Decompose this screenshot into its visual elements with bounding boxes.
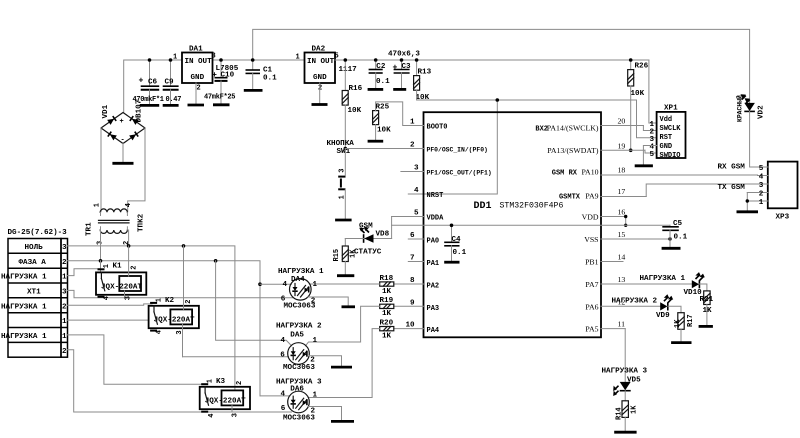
bridge rectifier VD1	[101, 113, 145, 145]
ground below R21	[699, 325, 713, 328]
svg-text:R15: R15	[333, 249, 341, 262]
svg-text:JQX-220AT: JQX-220AT	[205, 398, 246, 406]
svg-text:PA3: PA3	[427, 305, 440, 313]
svg-text:VD5: VD5	[627, 377, 641, 385]
terminal block XT1	[1, 239, 68, 358]
transformer TR1	[94, 203, 134, 245]
svg-text:DA5: DA5	[290, 331, 304, 339]
regulator DA2	[296, 46, 339, 93]
wire XT1 row3 to K1 pin1	[68, 269, 101, 276]
svg-text:+: +	[393, 64, 398, 73]
pin 3 stub	[401, 165, 492, 177]
XP1 pin numbers	[650, 121, 655, 159]
svg-text:0.1: 0.1	[263, 74, 277, 82]
ground below XP3	[737, 210, 759, 213]
wire NRST net R13 to chip pin4 and XP1 pin3	[408, 90, 656, 194]
svg-text:ФАЗА А: ФАЗА А	[19, 259, 47, 267]
svg-text:НАГРУЗКА 1: НАГРУЗКА 1	[1, 274, 47, 282]
resistor R14	[616, 401, 639, 432]
wire DA6 pin2 to ground	[308, 407, 341, 422]
pin 12 stub PA6	[585, 297, 660, 311]
svg-text:3: 3	[339, 169, 347, 173]
svg-text:2: 2	[410, 142, 415, 150]
resistor R26	[628, 60, 649, 98]
svg-text:PA4: PA4	[427, 327, 440, 335]
svg-text:PB1: PB1	[585, 258, 599, 267]
wire 5V rail from bridge to DA1 and DA2	[124, 60, 305, 113]
svg-text:11: 11	[618, 320, 626, 329]
wire NOL net row1	[68, 246, 235, 391]
pin 7 stub PA1	[408, 255, 439, 269]
svg-text:VD8: VD8	[376, 230, 390, 238]
svg-text:1117: 1117	[339, 66, 358, 74]
DA5 pin labels	[280, 337, 317, 365]
svg-text:C9: C9	[165, 79, 175, 87]
junction C1 on rail	[251, 58, 255, 62]
svg-text:4: 4	[208, 413, 216, 417]
svg-text:DA4: DA4	[291, 276, 305, 284]
svg-text:PF0/OSC_IN/(PF0): PF0/OSC_IN/(PF0)	[427, 146, 488, 153]
wire XT1 row7 to K3 pin1	[68, 335, 205, 384]
svg-text:1: 1	[62, 274, 67, 282]
svg-text:SWDIO: SWDIO	[660, 152, 681, 160]
svg-text:3: 3	[232, 413, 240, 417]
svg-text:XP1: XP1	[664, 105, 678, 113]
junction NRST branch	[496, 98, 500, 102]
capacitor C9	[163, 60, 179, 105]
pin 8 stub PA2	[394, 277, 439, 291]
LED VD10	[684, 272, 705, 297]
LED VD9	[656, 294, 673, 320]
svg-text:PA9: PA9	[585, 191, 598, 200]
DA6 pin labels	[281, 391, 318, 416]
wire R19 to DA5 pin1	[305, 306, 379, 346]
ground below C10	[213, 103, 230, 106]
capacitor C4	[444, 225, 466, 261]
wire VD2 to XP3 pin5	[750, 111, 758, 167]
svg-text:+: +	[120, 118, 124, 126]
junction C2 on rail	[374, 58, 378, 62]
svg-text:XP3: XP3	[776, 214, 790, 222]
ground below VD1	[112, 144, 133, 164]
svg-text:НАГРУЗКА 2: НАГРУЗКА 2	[612, 297, 658, 305]
junction XP3 pin1	[746, 199, 749, 202]
junction NOL K2 pin2	[182, 244, 186, 248]
wire bridge right corner to transformer pin4	[128, 128, 145, 212]
svg-text:DD1: DD1	[474, 201, 492, 212]
capacitor C1	[246, 60, 278, 90]
junction FAZA transformer pin3 and K1 pin1	[99, 259, 103, 263]
svg-text:SWCLK: SWCLK	[660, 125, 682, 133]
svg-text:BOOT0: BOOT0	[427, 123, 448, 131]
svg-text:DG-25(7.62)-3: DG-25(7.62)-3	[8, 229, 68, 237]
svg-text:2: 2	[131, 266, 139, 270]
svg-text:1: 1	[62, 318, 67, 326]
svg-text:КРАСНЫЙ: КРАСНЫЙ	[736, 95, 744, 122]
ground DA4 pin2	[342, 305, 356, 308]
ground below SW1	[335, 219, 352, 222]
svg-text:PA7: PA7	[585, 280, 598, 289]
svg-text:2: 2	[236, 381, 244, 385]
junction C10 on rail	[219, 58, 223, 62]
connector XP3	[768, 162, 798, 222]
svg-text:STM32F030F4P6: STM32F030F4P6	[500, 202, 564, 211]
svg-text:2: 2	[62, 348, 67, 356]
pin 14 stub PB1	[585, 253, 625, 267]
svg-text:3: 3	[414, 165, 419, 173]
svg-text:VDD: VDD	[582, 213, 599, 222]
svg-text:0.47: 0.47	[166, 96, 182, 104]
svg-text:R16: R16	[349, 85, 363, 93]
svg-text:13: 13	[618, 275, 626, 284]
svg-text:2: 2	[185, 300, 193, 304]
svg-text:R18: R18	[380, 275, 394, 283]
svg-text:C10: C10	[221, 72, 235, 80]
svg-text:RST: RST	[660, 134, 673, 142]
wire FAZA to DA4 pin4	[260, 283, 291, 285]
svg-text:1: 1	[339, 195, 347, 199]
resistor R13	[414, 60, 432, 102]
svg-text:OUT: OUT	[198, 58, 212, 66]
svg-text:1: 1	[313, 392, 318, 400]
svg-text:НАГРУЗКА 1: НАГРУЗКА 1	[1, 333, 47, 341]
pin 17 stub TX	[559, 184, 758, 201]
switch SW1	[337, 147, 351, 220]
wire DA5 pin2 to ground	[309, 356, 342, 367]
svg-text:K1: K1	[113, 262, 123, 270]
svg-text:GND: GND	[660, 143, 673, 151]
wire VD9 to R17	[668, 306, 681, 312]
ground DA5 pin2	[331, 366, 352, 369]
junction R26 on rail	[629, 58, 633, 62]
pin 1 stub	[408, 119, 447, 132]
svg-text:НОЛЬ: НОЛЬ	[25, 244, 44, 252]
junction C6 on rail	[148, 58, 152, 62]
resistor R19	[380, 297, 394, 318]
junction C3 on rail	[400, 58, 404, 62]
wire XT1 row5 to K2 pin1	[68, 304, 153, 305]
svg-text:3: 3	[759, 182, 764, 190]
svg-text:PA0: PA0	[427, 238, 440, 246]
svg-text:2: 2	[759, 191, 764, 199]
svg-text:10K: 10K	[631, 90, 645, 98]
capacitor C5	[662, 220, 687, 248]
svg-text:JQX-220AT: JQX-220AT	[154, 317, 195, 325]
svg-text:1: 1	[207, 379, 215, 383]
junction pin16 on VDB rail	[624, 224, 627, 227]
svg-text:17: 17	[618, 187, 626, 196]
wire R25 bottom to ground	[375, 125, 377, 141]
value label C6 C9	[133, 96, 182, 104]
ground below R17	[671, 341, 691, 344]
svg-text:20: 20	[618, 117, 626, 126]
svg-text:R13: R13	[418, 69, 432, 77]
svg-text:PA6: PA6	[585, 302, 598, 311]
capacitor C2	[369, 60, 391, 89]
svg-text:5: 5	[759, 165, 764, 173]
svg-text:TX GSM: TX GSM	[718, 184, 746, 192]
svg-text:1: 1	[103, 264, 111, 268]
junction C4 on VDB rail	[450, 224, 454, 228]
svg-text:TR1: TR1	[86, 222, 94, 236]
pin 6 stub PA0	[408, 232, 439, 246]
svg-text:GSMTX: GSMTX	[559, 193, 581, 201]
wire R26 to PA13 net	[630, 86, 632, 150]
svg-text:0.1: 0.1	[376, 78, 390, 86]
resistor R21	[700, 291, 714, 326]
ground below C9	[163, 104, 179, 107]
wire 3.3V rail from DA2 to XP1	[335, 60, 657, 123]
relay K2	[149, 246, 199, 357]
ground below R15	[337, 274, 354, 277]
wire transformer pin3 to FAZA line	[100, 230, 102, 261]
svg-text:4: 4	[281, 391, 286, 399]
svg-text:R26: R26	[635, 63, 649, 71]
svg-text:4: 4	[283, 281, 288, 289]
ground below C1	[244, 89, 263, 92]
svg-text:RX GSM: RX GSM	[718, 164, 746, 172]
capacitor C10	[212, 60, 235, 104]
diode VD2	[741, 94, 755, 111]
junction C9 on rail	[169, 58, 173, 62]
svg-text:C1: C1	[263, 67, 273, 75]
svg-text:3: 3	[125, 296, 133, 300]
ground below DA2 pin2	[312, 83, 328, 105]
svg-text:K3: K3	[216, 378, 226, 386]
ground below C3	[393, 88, 406, 91]
relay K3	[200, 379, 250, 418]
svg-text:4: 4	[281, 337, 286, 345]
svg-text:ТПК2: ТПК2	[138, 213, 146, 232]
XP3 pin numbers and stubs	[747, 165, 768, 207]
svg-text:PA1: PA1	[427, 260, 440, 268]
svg-text:НАГРУЗКА 1: НАГРУЗКА 1	[640, 275, 686, 283]
ground below DA1 pin2	[188, 83, 205, 105]
svg-text:470mkF*1: 470mkF*1	[133, 96, 164, 104]
microcontroller DD1 box	[424, 112, 602, 337]
relay K1	[96, 246, 146, 300]
svg-text:10K: 10K	[416, 94, 430, 102]
capacitor C6	[139, 60, 160, 105]
svg-text:1: 1	[62, 333, 67, 341]
pin 18 stub RX	[552, 166, 758, 178]
svg-text:PA14/(SWCLK): PA14/(SWCLK)	[547, 123, 599, 132]
svg-text:НАГРУЗКА 1: НАГРУЗКА 1	[1, 303, 47, 311]
svg-text:3: 3	[176, 330, 184, 334]
svg-text:MOC3063: MOC3063	[283, 364, 315, 372]
svg-text:4: 4	[103, 296, 111, 300]
svg-text:C4: C4	[452, 236, 462, 244]
LED VD5	[613, 377, 641, 397]
svg-text:2: 2	[62, 303, 67, 311]
svg-text:K2: K2	[165, 297, 175, 305]
svg-text:6: 6	[410, 232, 415, 240]
svg-text:GND: GND	[191, 74, 205, 82]
svg-text:НАГРУЗКА 1: НАГРУЗКА 1	[278, 268, 324, 276]
svg-text:R25: R25	[376, 103, 390, 111]
svg-text:Vdd: Vdd	[660, 116, 673, 124]
pin 5 stub VDDA	[392, 210, 445, 223]
wire R16 bottom to SW1/PF0 node	[344, 105, 346, 148]
svg-text:PF1/OSC_OUT/(PF1): PF1/OSC_OUT/(PF1)	[427, 169, 492, 176]
resistor R20	[380, 319, 394, 340]
svg-text:+: +	[139, 77, 144, 86]
ground DA6 pin2	[331, 420, 354, 423]
svg-text:2: 2	[123, 241, 131, 245]
svg-text:+: +	[212, 71, 217, 80]
svg-text:PA2: PA2	[427, 283, 440, 291]
wire XP1 pin4 GND	[643, 146, 656, 166]
wire DA6 pin4 from FAZA	[260, 395, 290, 397]
svg-text:2: 2	[62, 259, 67, 267]
svg-text:18: 18	[618, 166, 626, 175]
pin 10 stub PA4	[394, 322, 439, 336]
ground below C4	[444, 261, 459, 264]
svg-text:5: 5	[650, 151, 655, 159]
svg-text:DA6: DA6	[290, 386, 304, 394]
svg-text:1: 1	[94, 203, 102, 207]
svg-text:C6: C6	[148, 79, 158, 87]
svg-text:4: 4	[125, 203, 133, 207]
junction NOL transformer pin2 and K1 pin2	[127, 244, 131, 248]
svg-text:MOC3063: MOC3063	[283, 414, 315, 422]
svg-text:8: 8	[410, 277, 415, 285]
svg-text:10K: 10K	[348, 107, 362, 115]
connector XP1	[657, 105, 686, 161]
svg-text:1: 1	[759, 199, 764, 207]
svg-text:R19: R19	[380, 297, 394, 305]
wire SW1 node to chip pin2	[345, 148, 408, 150]
svg-text:7: 7	[410, 255, 415, 263]
pin 2 stub	[408, 142, 488, 154]
svg-text:PA5: PA5	[585, 325, 598, 334]
svg-text:R14: R14	[616, 407, 624, 420]
svg-text:C3: C3	[402, 63, 412, 71]
svg-text:6: 6	[280, 352, 285, 360]
wire FAZA branch to DA5 pin4	[216, 261, 292, 346]
wire bridge left corner to transformer pin1	[100, 128, 102, 212]
svg-text:3: 3	[62, 288, 67, 296]
svg-text:R20: R20	[380, 319, 394, 327]
resistor R15	[333, 239, 358, 276]
resistor R18	[380, 275, 394, 296]
regulator DA1	[173, 46, 216, 93]
svg-text:10K: 10K	[377, 127, 391, 135]
svg-text:47mkF*25: 47mkF*25	[204, 94, 235, 102]
ground below C2	[368, 88, 384, 91]
resistor R25	[373, 103, 392, 134]
svg-text:3: 3	[62, 244, 67, 252]
svg-text:4: 4	[759, 174, 764, 182]
pin 15 stub VSS	[584, 230, 670, 244]
svg-text:1K: 1K	[382, 310, 392, 318]
svg-text:PA10: PA10	[581, 167, 598, 176]
wire transformer pin2 to NOL line	[128, 230, 130, 246]
svg-text:NRST: NRST	[427, 192, 444, 200]
svg-text:0.1: 0.1	[674, 234, 688, 242]
svg-text:4: 4	[414, 187, 419, 195]
svg-text:GSM RX: GSM RX	[552, 169, 578, 177]
svg-text:1: 1	[313, 281, 318, 289]
pin 20 stub SWCLK	[535, 117, 656, 134]
svg-text:DA1: DA1	[189, 46, 203, 54]
junction R16 on rail	[344, 58, 348, 62]
resistor R16	[342, 60, 362, 115]
wire XT1 row4 to K1 pin4 and DA4 pin6	[68, 290, 293, 297]
svg-text:1K: 1K	[382, 288, 392, 296]
pin 11 stub PA5	[585, 320, 625, 382]
svg-text:JQX-220AT: JQX-220AT	[101, 283, 142, 291]
svg-text:PA13/(SWDAT): PA13/(SWDAT)	[547, 146, 599, 155]
wire K2 pin3 to DA5 pin6	[183, 356, 289, 358]
wire R18 to DA4 pin1	[309, 283, 379, 285]
svg-text:1: 1	[156, 298, 164, 302]
svg-text:НАГРУЗКА 2: НАГРУЗКА 2	[276, 323, 322, 331]
svg-text:DA2: DA2	[312, 46, 326, 54]
svg-text:C2: C2	[376, 63, 386, 71]
svg-text:VDDA: VDDA	[427, 214, 445, 222]
svg-text:0.1: 0.1	[453, 249, 467, 257]
optocoupler DA5	[288, 343, 310, 365]
svg-text:2: 2	[197, 85, 201, 93]
svg-text:GND: GND	[313, 74, 327, 82]
wire VD10 to R21	[699, 284, 707, 291]
svg-text:R17: R17	[687, 314, 695, 327]
svg-text:XT1: XT1	[27, 288, 41, 296]
junction pin16	[624, 215, 627, 218]
LED VD8	[345, 225, 391, 243]
svg-text:OUT: OUT	[321, 58, 335, 66]
svg-text:4: 4	[156, 330, 164, 334]
svg-text:1: 1	[296, 54, 300, 62]
svg-text:19: 19	[618, 141, 626, 150]
pin 16 stub VDD	[582, 208, 626, 226]
svg-text:6: 6	[281, 405, 286, 413]
svg-text:5: 5	[414, 210, 419, 218]
svg-text:16: 16	[618, 208, 626, 217]
DA4 pin labels	[281, 281, 318, 306]
pin 19 stub SWDAT	[547, 141, 656, 155]
wire R25 top to chip pin1 BOOT0	[376, 102, 409, 126]
svg-text:VD9: VD9	[656, 312, 670, 320]
junction FAZA to DA5 pin4 branch	[214, 259, 218, 263]
wire VDB net pin5 over chip to C5	[392, 217, 670, 226]
svg-text:10: 10	[406, 322, 416, 330]
svg-text:15: 15	[618, 230, 626, 239]
ground below XP1 pin4	[635, 164, 653, 167]
svg-text:470x6,3: 470x6,3	[388, 51, 420, 59]
ground below R25	[368, 140, 384, 143]
svg-text:MOC3063: MOC3063	[284, 302, 316, 310]
wire XP3 pins 1,2 to ground	[746, 193, 748, 212]
svg-text:КНОПКА: КНОПКА	[327, 140, 355, 148]
pin 13 stub PA7	[585, 275, 691, 289]
junction VSS on C5 leg	[668, 237, 671, 240]
optocoupler DA4	[290, 279, 312, 301]
wire XT1 row6 to K2 contact	[68, 319, 149, 321]
junction FAZA to DA4 pin4 branch	[258, 282, 262, 286]
wire K1 pin1 from FAZA junction	[100, 261, 102, 273]
wire R20 to DA6 pin1	[308, 329, 380, 398]
wire FAZA net row2	[68, 261, 261, 396]
wire DA4 pin2 to ground	[308, 297, 348, 306]
svg-text:C5: C5	[673, 220, 683, 228]
svg-text:1K: 1K	[674, 319, 682, 328]
svg-text:СТАТУС: СТАТУС	[354, 249, 382, 257]
svg-text:IN: IN	[185, 58, 195, 66]
svg-text:14: 14	[618, 253, 626, 262]
svg-text:9: 9	[410, 299, 415, 307]
